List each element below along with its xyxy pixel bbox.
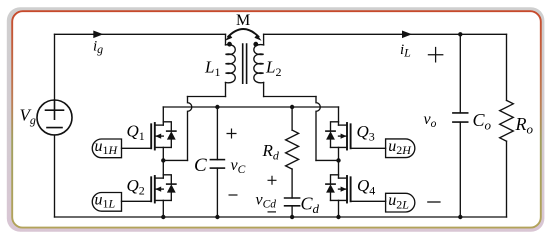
wire hop to Q1 Q2 midpoint — [163, 159, 187, 161]
gate box u1H — [92, 139, 121, 158]
node Co bottom — [458, 215, 462, 219]
node Q4 bottom — [336, 215, 340, 219]
wire upper rail left — [188, 96, 226, 98]
transistor Q1 — [151, 107, 176, 160]
node Q2 bottom — [161, 215, 165, 219]
resistor Rd — [286, 107, 299, 198]
transistor Q2 — [151, 160, 176, 217]
node Cd bottom — [290, 215, 294, 219]
capacitor Co — [453, 34, 468, 217]
resistor Ro — [500, 100, 514, 217]
wire gate Q4 — [351, 200, 386, 202]
node C bottom — [215, 215, 219, 219]
minus vCd — [268, 211, 277, 213]
svg-text:M: M — [236, 12, 250, 29]
svg-text:ig: ig — [93, 39, 103, 57]
node dot L2 — [253, 42, 258, 47]
node dot L1 — [227, 42, 232, 47]
gate box u2L — [386, 193, 415, 212]
minus vo — [427, 201, 440, 203]
transistor Q4 — [326, 160, 351, 217]
wire gate Q2 — [122, 200, 152, 202]
voltage source Vg — [37, 100, 72, 135]
wire gate Q3 — [351, 147, 386, 149]
wire lower rail — [163, 106, 338, 108]
node Q1-Q2 midpoint — [161, 158, 165, 162]
wire Vg top to top rail — [54, 34, 56, 100]
current arrow iL — [402, 31, 412, 39]
wire left hop over lower rail — [188, 97, 192, 161]
svg-text:iL: iL — [400, 42, 411, 60]
wire right hop over lower rail — [316, 97, 320, 161]
node C top — [215, 105, 219, 109]
wire hop to Q3 Q4 midpoint — [316, 159, 339, 161]
capacitor C — [210, 107, 224, 217]
wire gate Q1 — [122, 147, 152, 149]
mutual inductance arrow M — [225, 29, 261, 41]
svg-text:C: C — [194, 155, 207, 176]
wire right side down to Ro — [506, 34, 508, 100]
wire Vg bottom — [54, 135, 56, 217]
plus vo — [428, 47, 444, 63]
node Q3-Q4 midpoint — [336, 158, 340, 162]
wire top rail right — [264, 33, 507, 35]
capacitor Cd — [285, 198, 300, 217]
inductor L2 — [254, 34, 264, 96]
wire top rail left — [55, 33, 226, 35]
gate box u2H — [386, 139, 415, 158]
node Co top — [458, 32, 462, 36]
gate box u1L — [92, 193, 121, 212]
current arrow ig — [93, 31, 103, 39]
wire bottom rail — [55, 216, 507, 218]
node Rd top — [290, 105, 294, 109]
inductor L1 — [226, 34, 236, 96]
wire upper rail right — [264, 96, 316, 98]
plus vCd — [268, 176, 277, 185]
transistor Q3 — [326, 107, 351, 160]
transformer core — [243, 44, 247, 83]
minus vC — [229, 194, 238, 196]
plus vC — [227, 129, 237, 139]
